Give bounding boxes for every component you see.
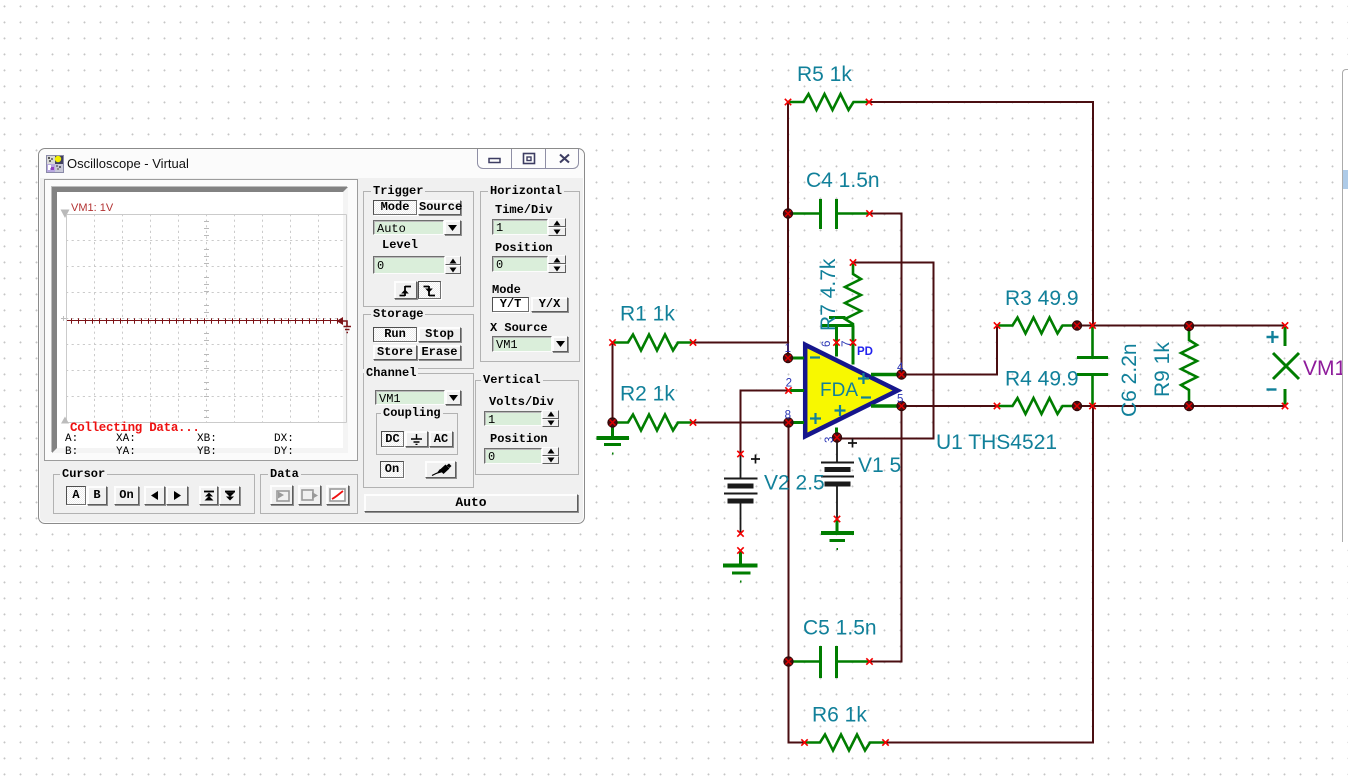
Vertical group <box>475 380 579 475</box>
svg-text:VM1: VM1 <box>1303 357 1346 380</box>
V2 plus sign <box>751 455 760 464</box>
junction node R9-top <box>1184 321 1193 330</box>
V1 plus sign <box>848 439 857 448</box>
trace name <box>71 202 113 214</box>
pin 2 stub <box>790 389 804 392</box>
battery V2 <box>724 454 758 534</box>
svg-text:4: 4 <box>897 362 904 374</box>
junction node C4-left <box>783 209 792 218</box>
svg-text:1: 1 <box>785 343 791 355</box>
resistor R3 <box>997 318 1077 334</box>
capacitor C5 <box>789 646 870 678</box>
collecting data <box>70 421 200 435</box>
resistor R2 <box>613 415 694 431</box>
ground (R2 input) <box>597 423 630 454</box>
Horizontal group <box>480 191 580 362</box>
trace <box>67 318 343 324</box>
capacitor C4 <box>788 199 870 229</box>
wire R1 left down to ground node <box>612 343 614 423</box>
svg-text:R1 1k: R1 1k <box>620 303 675 326</box>
wire C4 right down to pin4 <box>870 214 902 375</box>
trace end marker <box>337 317 352 333</box>
VM1 plus/minus <box>1267 331 1279 390</box>
svg-text:5: 5 <box>897 394 903 406</box>
svg-text:V1 5: V1 5 <box>858 454 901 477</box>
svg-text:2: 2 <box>786 378 792 390</box>
junction node pin5 <box>897 401 906 410</box>
junction node R4-right <box>1072 401 1081 410</box>
svg-text:C6 2.2n: C6 2.2n <box>1118 343 1141 417</box>
right side panel strip (scrollbar) <box>1342 69 1348 542</box>
wire R7 top loop to pin3 <box>837 263 934 439</box>
svg-text:R4 49.9: R4 49.9 <box>1005 368 1079 391</box>
wire out+ rail <box>1077 325 1285 327</box>
wire R5 right to feedback column <box>869 102 1093 326</box>
wire R2 to pin8 node <box>693 422 789 424</box>
junction node pin3 <box>832 433 841 442</box>
terminal marks <box>785 99 791 105</box>
wire R1 to node A <box>693 342 788 344</box>
svg-text:C4 1.5n: C4 1.5n <box>806 169 880 192</box>
Storage group <box>363 314 474 369</box>
Cursor group <box>53 474 255 514</box>
wire pin4 to R3 <box>902 326 998 375</box>
junction node C5-left <box>784 657 793 666</box>
wire R6 right up to out- rail <box>886 406 1094 743</box>
wire C5 right up to pin5 <box>870 406 902 662</box>
junction node R9-bottom <box>1184 401 1193 410</box>
svg-text:R2 1k: R2 1k <box>620 383 675 406</box>
pin 8 stub <box>793 421 805 424</box>
svg-text:C5 1.5n: C5 1.5n <box>803 617 877 640</box>
resistor R1 <box>613 335 694 351</box>
oscilloscope window <box>38 148 585 524</box>
pin 4 stub <box>871 373 898 376</box>
svg-text:FDA: FDA <box>820 380 858 401</box>
junction node pin8 <box>784 418 793 427</box>
svg-text:8: 8 <box>785 410 791 422</box>
svg-text:6: 6 <box>821 341 833 347</box>
svg-text:U1 THS4521: U1 THS4521 <box>936 431 1057 454</box>
junction node R2-ground <box>608 418 617 427</box>
wire pin2 to V2 <box>741 391 789 455</box>
pin 3 stub <box>835 428 838 435</box>
FDA input/output polarity marks <box>810 358 871 425</box>
junction node R3-right <box>1072 321 1081 330</box>
wire node A vertical (R5/C4/R1 to pin1) <box>787 102 789 358</box>
op-amp U1 FDA triangle <box>805 345 897 436</box>
svg-text:R7 4.7k: R7 4.7k <box>817 258 840 331</box>
sunken well <box>52 187 348 453</box>
svg-text:R6 1k: R6 1k <box>812 704 867 727</box>
pin 5 stub <box>871 404 898 407</box>
svg-text:V2 2.5: V2 2.5 <box>764 472 825 495</box>
battery V1 <box>821 438 854 519</box>
Data group <box>260 474 358 514</box>
wire pin5 to R4 <box>902 405 998 407</box>
graticule <box>61 214 354 426</box>
svg-text:PD: PD <box>857 346 873 358</box>
junction node pin4 <box>897 370 906 379</box>
window buttons <box>477 149 579 169</box>
Auto bar <box>364 494 578 512</box>
pin 1 stub <box>793 357 805 360</box>
resistor R6 <box>805 735 886 751</box>
resistor R4 <box>997 398 1077 414</box>
R7 bottom bars / pin6 pin7 leads <box>829 316 846 319</box>
voltmeter VM1 <box>1273 327 1299 405</box>
wire pin8 node down to C5 and R6 <box>789 423 805 743</box>
Trigger group <box>363 191 474 307</box>
svg-text:R3 49.9: R3 49.9 <box>1005 287 1079 310</box>
left channel markers <box>61 417 69 424</box>
resistor R7 <box>845 263 861 326</box>
resistor R5 <box>788 94 869 110</box>
junction node pin1 <box>783 353 792 362</box>
ground (V1) <box>821 519 854 549</box>
wire out- rail <box>1077 405 1285 407</box>
Channel group <box>363 373 474 488</box>
svg-text:7: 7 <box>841 341 853 347</box>
svg-text:R9 1k: R9 1k <box>1151 342 1174 397</box>
center axis ticks <box>204 222 209 418</box>
title icon <box>46 155 64 173</box>
ground (V2) <box>723 551 758 582</box>
svg-text:R5 1k: R5 1k <box>797 63 852 86</box>
pin numbers <box>785 341 904 443</box>
capacitor C6 <box>1077 326 1108 407</box>
scope display panel <box>44 179 358 461</box>
svg-text:3: 3 <box>824 437 836 443</box>
resistor R9 <box>1181 326 1197 406</box>
